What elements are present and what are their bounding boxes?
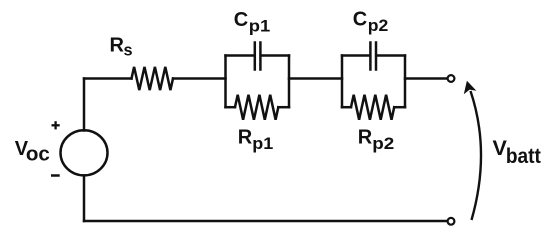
svg-text:Cp1: Cp1 — [234, 9, 270, 36]
node block2 right side — [404, 56, 407, 108]
capacitor C2 (Cp2) — [342, 43, 405, 70]
voltage source V1 (Voc circle) — [61, 130, 108, 175]
svg-text:Cp2: Cp2 — [353, 8, 388, 35]
svg-text:Vbatt: Vbatt — [493, 136, 541, 168]
wire top rail left segment — [84, 77, 132, 80]
terminal bottom (open circle) — [448, 218, 455, 225]
Vbatt arrow (curved) — [471, 91, 482, 220]
wire block2 to terminal — [405, 77, 447, 80]
wire left rail vertical bottom — [83, 176, 86, 222]
svg-text:Rs: Rs — [110, 34, 133, 59]
svg-text:Rp2: Rp2 — [358, 127, 394, 154]
wire left rail vertical top — [83, 79, 86, 131]
wire bottom rail — [84, 220, 447, 223]
terminal top (open circle) — [448, 75, 455, 82]
node block1 right side — [288, 56, 291, 108]
node block1 left side — [224, 56, 227, 108]
svg-text:Rp1: Rp1 — [238, 127, 273, 154]
node block2 left side — [341, 56, 344, 108]
wire Rs to block1 — [173, 77, 226, 80]
resistor R1 (Rs zigzag) — [132, 67, 174, 90]
minus sign of source — [51, 174, 60, 177]
capacitor C1 (Cp1) — [226, 43, 290, 70]
resistor R3 (Rp2 zigzag) — [342, 95, 405, 120]
Vbatt arrowhead — [464, 81, 477, 94]
plus sign of source — [52, 121, 60, 129]
resistor R2 (Rp1 zigzag) — [226, 95, 290, 120]
svg-text:Voc: Voc — [15, 138, 50, 166]
wire block1 to block2 — [289, 77, 342, 80]
